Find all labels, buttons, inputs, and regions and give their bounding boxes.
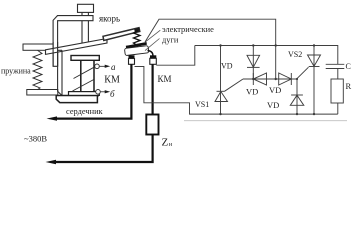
svg-text:якорь: якорь [99, 13, 120, 23]
svg-text:VD: VD [246, 87, 258, 97]
svg-text:~380В: ~380В [24, 134, 47, 144]
svg-text:VD: VD [221, 62, 233, 71]
svg-text:КМ: КМ [158, 74, 172, 84]
svg-text:а: а [111, 62, 116, 72]
svg-text:VD: VD [269, 85, 281, 95]
svg-text:VS2: VS2 [288, 50, 302, 59]
svg-text:C: C [346, 62, 351, 71]
svg-text:R: R [346, 81, 352, 91]
svg-text:VD: VD [267, 100, 279, 110]
svg-text:сердечник: сердечник [66, 107, 104, 116]
svg-text:КМ: КМ [104, 75, 120, 86]
svg-text:VS1: VS1 [195, 100, 209, 109]
svg-text:Z: Z [162, 136, 169, 148]
svg-text:дуги: дуги [162, 36, 179, 45]
svg-text:б: б [110, 89, 115, 99]
svg-text:пружина: пружина [1, 67, 31, 76]
svg-text:электрические: электрические [162, 25, 214, 34]
